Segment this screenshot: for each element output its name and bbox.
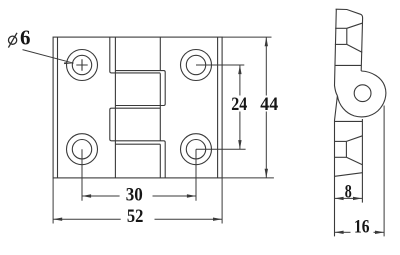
- ext line 30 left from hole: [81, 149, 83, 201]
- svg-text:8: 8: [345, 181, 352, 202]
- side view upper leaf top chamfer and right edge: [336, 9, 363, 71]
- arrow 24 down: [238, 140, 241, 149]
- hole top-left crosshair: [76, 59, 87, 70]
- side view upper countersink cone top: [347, 23, 362, 28]
- hole top-left inner: [72, 55, 91, 74]
- dim line 52 left segment: [53, 218, 121, 220]
- svg-text:6: 6: [20, 26, 31, 50]
- arrow 44 down: [265, 169, 268, 178]
- ext line 52 left: [52, 178, 54, 224]
- ext line 44 top: [222, 36, 271, 38]
- dim line 30 left segment: [82, 195, 120, 197]
- side view upper countersink cylinder bottom: [335, 43, 347, 45]
- side view upper countersink throat: [346, 28, 348, 44]
- side view upper leaf tangent line: [335, 64, 361, 66]
- knuckle sep2 bottom and left cut K3 and sep3 top and right cut K4: [110, 108, 165, 178]
- side view lower countersink cone bottom: [346, 157, 362, 164]
- arrow 8 left: [335, 197, 344, 200]
- knuckle left cut upper with corner: [110, 37, 161, 73]
- hole bottom-left inner: [72, 140, 91, 159]
- hole bottom-right inner: [186, 140, 205, 159]
- ext line 24 top from hole: [196, 64, 244, 66]
- svg-text:30: 30: [126, 185, 143, 206]
- ext line 30 right from hole: [195, 149, 197, 201]
- side view lower countersink cone top: [346, 136, 362, 142]
- hole bottom-left outer: [67, 134, 98, 165]
- dim line 44 upper segment: [265, 37, 267, 95]
- dia6 leader line: [23, 50, 74, 64]
- hole top-right outer: [181, 50, 212, 81]
- ext line 44 bottom: [222, 177, 274, 179]
- side view lower countersink throat: [345, 141, 347, 157]
- ext line 52 right: [221, 178, 223, 224]
- knuckle barrel right line: [159, 37, 161, 178]
- arrow 24 up: [238, 65, 241, 74]
- side view lower countersink cylinder bottom: [335, 156, 347, 158]
- knuckle barrel left line: [114, 37, 116, 178]
- dim line 52 right segment: [155, 218, 223, 220]
- svg-text:24: 24: [231, 94, 247, 115]
- arrow 52 right: [213, 218, 222, 221]
- ext line 16 right: [383, 106, 385, 237]
- side view upper leaf left edge: [335, 9, 338, 96]
- arrow 8 right: [353, 197, 362, 200]
- dim line 8: [335, 197, 363, 199]
- arrow 30 right: [187, 194, 196, 197]
- side view barrel outer curl: [337, 71, 385, 117]
- dim line 16 left segment: [335, 231, 351, 233]
- side view lower leaf right edge: [361, 119, 363, 203]
- arrow 44 up: [265, 37, 268, 46]
- dim line 44 lower segment: [265, 112, 267, 178]
- arrow 16 right: [375, 231, 384, 234]
- plate right inner edge line: [217, 37, 219, 178]
- hole top-right inner: [186, 55, 205, 74]
- label dia symbol: [8, 33, 17, 48]
- svg-text:44: 44: [260, 94, 278, 115]
- arrow 52 left: [53, 218, 62, 221]
- side view lower leaf end face: [335, 173, 363, 177]
- svg-text:52: 52: [127, 206, 144, 227]
- dim line 16 right segment: [374, 231, 385, 233]
- dim line 24 upper segment: [239, 65, 241, 96]
- knuckle sep1 top and right cut K2: [115, 71, 165, 106]
- arrow dia6 leader: [64, 62, 74, 64]
- side view lower countersink cylinder top: [334, 140, 346, 142]
- knuckle sep3 bottom line: [115, 143, 160, 145]
- hinge front view: plate outline: [53, 37, 222, 178]
- plate left inner edge line: [57, 37, 59, 178]
- arrow 16 left: [335, 231, 344, 234]
- svg-text:16: 16: [354, 217, 370, 238]
- side view upper countersink cylinder top: [335, 27, 347, 29]
- side view pin hole: [354, 85, 371, 102]
- side view lower leaf top line: [334, 120, 362, 122]
- hole top-left outer: [67, 50, 98, 81]
- ext line 24 bottom from hole: [196, 148, 246, 150]
- dim line 24 lower segment: [239, 112, 241, 150]
- side view upper countersink cone bottom: [347, 44, 362, 52]
- side view lower leaf left edge: [335, 96, 338, 237]
- hole bottom-right outer: [181, 134, 212, 165]
- arrow 30 left: [82, 194, 91, 197]
- dim line 30 right segment: [153, 195, 197, 197]
